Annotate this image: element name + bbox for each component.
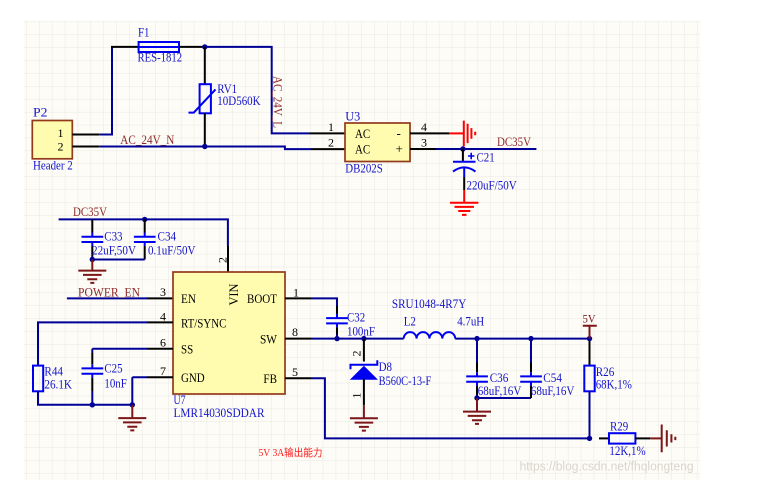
- junction R29: [587, 436, 592, 441]
- svg-text:C32: C32: [347, 309, 365, 324]
- wire red to earth: [449, 132, 463, 134]
- pin R29 right: [635, 437, 650, 439]
- junction RV1 / AC_24V_N: [202, 144, 207, 149]
- wire C36-C54 bottom: [477, 397, 531, 399]
- svg-text:2: 2: [350, 351, 364, 357]
- svg-text:AC_24V_L: AC_24V_L: [271, 76, 286, 128]
- svg-text:4: 4: [160, 309, 166, 323]
- svg-text:POWER_EN: POWER_EN: [78, 284, 141, 299]
- pin R26 top: [589, 341, 591, 366]
- svg-text:2: 2: [216, 257, 230, 263]
- power port 5V: [583, 311, 597, 338]
- junction C25 bottom: [90, 402, 95, 407]
- svg-text:D8: D8: [379, 359, 392, 374]
- junction 5V: [587, 336, 592, 341]
- ground below D8: [350, 405, 378, 430]
- wire U3.3 to C21/DC35V: [436, 148, 536, 150]
- pin D8.1: [363, 379, 365, 405]
- wire P2.1 to F1: [99, 47, 112, 135]
- svg-text:5V 3A输出能力: 5V 3A输出能力: [259, 446, 323, 459]
- svg-text:22uF,50V: 22uF,50V: [92, 242, 137, 257]
- bridge rectifier U3: [328, 109, 427, 176]
- svg-text:AC: AC: [355, 141, 370, 156]
- pin P2.1: [72, 134, 99, 136]
- svg-text:BOOT: BOOT: [247, 291, 277, 306]
- wire R44 bottom: [38, 391, 132, 405]
- junction C21: [460, 146, 465, 151]
- wire RT/SYNC to R44: [38, 322, 147, 365]
- pin C32 top: [336, 306, 338, 314]
- ground below GND junction: [118, 405, 146, 431]
- svg-text:DC35V: DC35V: [73, 204, 108, 219]
- svg-text:5: 5: [292, 365, 298, 379]
- capacitor C36: [466, 370, 522, 398]
- pin U7.8 SW: [285, 338, 311, 340]
- ground below C36: [463, 398, 491, 424]
- inductor L2: [392, 296, 484, 339]
- pin D8.2: [363, 339, 365, 362]
- wire to earth: [650, 437, 661, 439]
- regulator U7: [160, 272, 299, 420]
- resistor R44: [33, 364, 73, 392]
- svg-text:U3: U3: [345, 109, 360, 124]
- svg-text:5V: 5V: [583, 311, 596, 325]
- svg-text:VIN: VIN: [226, 283, 241, 306]
- pin RV1 top: [204, 47, 206, 84]
- resistor R26: [584, 364, 632, 392]
- junction C36 bottom: [474, 395, 479, 400]
- wire DC35V rail: [59, 219, 228, 246]
- svg-text:FB: FB: [263, 371, 277, 386]
- pin U7.3 EN: [147, 297, 173, 299]
- pin C25 top: [91, 349, 93, 353]
- pin C34 top: [144, 219, 146, 232]
- pin C54 top: [530, 363, 532, 373]
- wire L2 to 5V: [455, 338, 589, 340]
- wire FB to R29 junction: [311, 378, 590, 438]
- pin P2.2: [72, 146, 99, 148]
- svg-text:68uF,16V: 68uF,16V: [531, 383, 575, 398]
- svg-text:68K,1%: 68K,1%: [596, 377, 632, 392]
- pin U3.3: [410, 148, 436, 150]
- svg-text:DC35V: DC35V: [497, 134, 532, 149]
- pin U3.4: [410, 132, 449, 134]
- svg-text:AC: AC: [355, 126, 370, 141]
- capacitor C25: [82, 360, 127, 405]
- pin F1 left: [111, 46, 139, 48]
- wire R26 bottom: [589, 391, 591, 438]
- svg-text:4: 4: [421, 120, 427, 134]
- svg-text:1: 1: [58, 126, 64, 140]
- svg-text:AC_24V_N: AC_24V_N: [120, 132, 175, 147]
- junction C32 / SW: [334, 336, 339, 341]
- ground (red) below C21: [450, 190, 478, 215]
- svg-text:P2: P2: [33, 105, 48, 120]
- svg-text:0.1uF/50V: 0.1uF/50V: [148, 242, 196, 257]
- pin U7.4 RT/SYNC: [147, 321, 173, 323]
- svg-text:C21: C21: [477, 149, 495, 164]
- svg-text:R29: R29: [610, 419, 628, 434]
- svg-text:GND: GND: [181, 370, 205, 385]
- earth ground (red) at U3.4: [464, 121, 475, 147]
- pin C33 top: [91, 219, 93, 232]
- svg-text:10nF: 10nF: [104, 375, 126, 390]
- wire F1 to AC_24V_L corner: [205, 47, 310, 133]
- capacitor C54: [520, 370, 575, 398]
- pin RV1 bottom: [204, 113, 206, 146]
- junction D8: [361, 336, 366, 341]
- svg-text:2: 2: [58, 140, 64, 154]
- wire SW to L2: [311, 338, 404, 340]
- pin R29 left: [599, 437, 609, 439]
- capacitor C32: [326, 309, 375, 338]
- pin U7.7 GND: [147, 376, 173, 378]
- svg-text:SRU1048-4R7Y: SRU1048-4R7Y: [392, 296, 467, 311]
- junction C33 bottom: [90, 257, 95, 262]
- svg-text:3: 3: [160, 285, 166, 299]
- wire C33-C34 bottom: [92, 259, 144, 261]
- svg-text:B560C-13-F: B560C-13-F: [379, 373, 432, 388]
- svg-text:12K,1%: 12K,1%: [609, 443, 645, 458]
- resistor R29: [609, 419, 646, 458]
- junction at F1/RV1: [202, 44, 207, 49]
- svg-text:DB202S: DB202S: [345, 160, 383, 175]
- wire GND down: [132, 377, 147, 405]
- varistor RV1: [189, 81, 262, 113]
- svg-text:6: 6: [160, 336, 166, 350]
- ground below C33: [78, 260, 106, 283]
- pin F1 right: [179, 46, 205, 48]
- svg-text:F1: F1: [138, 25, 150, 40]
- svg-text:SS: SS: [181, 342, 193, 357]
- svg-text:C25: C25: [104, 360, 122, 375]
- junction GND: [130, 402, 135, 407]
- svg-text:RES-1812: RES-1812: [138, 50, 183, 65]
- pin U3.2: [311, 148, 345, 150]
- wire POWER_EN: [67, 297, 147, 299]
- svg-text:7: 7: [160, 364, 166, 378]
- svg-text:SW: SW: [260, 331, 278, 346]
- diode D8: [351, 359, 432, 388]
- svg-text:1: 1: [328, 120, 334, 134]
- svg-text:https://blog.csdn.net/fhqlongt: https://blog.csdn.net/fhqlongteng: [520, 460, 694, 474]
- pin U7.2 VIN: [227, 246, 229, 272]
- svg-text:+: +: [396, 141, 403, 156]
- svg-text:100nF: 100nF: [347, 323, 375, 338]
- svg-text:-: -: [397, 125, 401, 140]
- svg-text:220uF/50V: 220uF/50V: [467, 178, 518, 193]
- pin U7.6 SS: [147, 348, 173, 350]
- svg-text:68uF,16V: 68uF,16V: [478, 383, 522, 398]
- pin C36 top: [476, 363, 478, 373]
- svg-text:RT/SYNC: RT/SYNC: [181, 315, 226, 330]
- pin U7.1 BOOT: [285, 297, 311, 299]
- capacitor C34: [134, 228, 196, 259]
- svg-text:LMR14030SDDAR: LMR14030SDDAR: [174, 405, 265, 420]
- pin U3.1: [310, 132, 345, 134]
- svg-text:L2: L2: [404, 313, 416, 328]
- wire AC_24V_N: [99, 147, 311, 150]
- svg-text:EN: EN: [181, 291, 197, 306]
- wire C36 drop: [476, 339, 478, 363]
- fuse F1: [138, 25, 183, 65]
- pin U7.5 FB: [285, 377, 311, 379]
- wire SS to C25: [92, 348, 147, 350]
- svg-text:C34: C34: [158, 228, 177, 243]
- svg-text:Header 2: Header 2: [33, 158, 73, 173]
- wire BOOT to C32: [311, 298, 337, 306]
- earth ground (dark red) right of R29: [662, 425, 676, 453]
- capacitor C33: [82, 228, 137, 259]
- svg-text:C33: C33: [104, 228, 122, 243]
- capacitor C21: [453, 149, 517, 193]
- svg-text:1: 1: [350, 393, 364, 399]
- svg-text:3: 3: [421, 136, 427, 150]
- svg-text:2: 2: [328, 136, 334, 150]
- svg-text:26.1K: 26.1K: [44, 377, 72, 392]
- wire C54 drop: [530, 339, 532, 363]
- junction C36: [474, 336, 479, 341]
- svg-text:8: 8: [292, 325, 298, 339]
- svg-text:4.7uH: 4.7uH: [457, 313, 484, 328]
- junction C34 top: [142, 217, 147, 222]
- junction C54: [528, 336, 533, 341]
- svg-text:10D560K: 10D560K: [217, 93, 261, 108]
- connector P2 body: [32, 105, 72, 173]
